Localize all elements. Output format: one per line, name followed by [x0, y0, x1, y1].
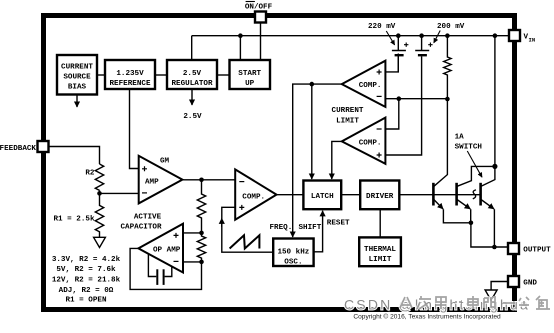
wire on/off pin to start up	[260, 23, 262, 61]
wire latch to driver	[341, 194, 360, 196]
svg-text:IN: IN	[529, 36, 536, 43]
svg-text:COMP.: COMP.	[359, 139, 382, 147]
block START UP	[230, 60, 271, 89]
arrow 2.5V output below regulator	[183, 89, 202, 121]
wire comp1 output to freq shift	[293, 84, 342, 237]
wire op amp feedback loop	[130, 248, 201, 289]
wire driver to thermal limit	[379, 209, 381, 237]
block THERMAL LIMIT	[359, 237, 401, 266]
break squiggle on base line	[473, 190, 476, 199]
svg-text:R1 = 2.5k: R1 = 2.5k	[53, 215, 94, 223]
comparator current limit lower	[342, 118, 386, 164]
svg-text:ACTIVE: ACTIVE	[134, 213, 162, 221]
table R2 values	[52, 256, 121, 305]
transistor Q3	[481, 166, 495, 247]
watermark CJK pseudo-glyph layer	[400, 296, 550, 309]
wire PWM output to latch	[277, 194, 304, 196]
resistor compensation lower	[197, 233, 205, 262]
svg-text:R2: R2	[85, 170, 95, 178]
resistor compensation upper	[197, 180, 205, 233]
svg-text:3.3V, R2 = 4.2k: 3.3V, R2 = 4.2k	[52, 256, 121, 264]
op-amp GM AMP	[139, 156, 183, 204]
block 150 kHz OSC	[273, 239, 313, 267]
wire osc to latch reset	[314, 211, 323, 252]
battery 220mV	[392, 36, 409, 72]
wire node to op amp - input	[183, 261, 202, 263]
svg-text:RESET: RESET	[327, 220, 350, 228]
arrow up on ramp feed	[221, 218, 223, 227]
svg-text:SWITCH: SWITCH	[455, 144, 483, 152]
svg-text:AMP: AMP	[145, 178, 159, 186]
capacitor active cap	[148, 254, 171, 285]
pin VIN	[509, 30, 520, 41]
svg-text:LIMIT: LIMIT	[369, 256, 392, 264]
comparator PWM	[235, 169, 276, 219]
svg-text:OSC.: OSC.	[284, 258, 302, 266]
IC boundary frame	[44, 16, 515, 310]
svg-text:FREQ.: FREQ.	[270, 224, 293, 232]
svg-text:12V, R2 = 21.8k: 12V, R2 = 21.8k	[52, 277, 121, 285]
wire start up left top	[239, 36, 241, 60]
pin ON/OFF	[255, 12, 266, 23]
block 2.5V REGULATOR	[167, 60, 217, 89]
battery 200mV	[385, 36, 432, 155]
svg-text:LIMIT: LIMIT	[336, 117, 359, 125]
ground open arrow below R1	[94, 237, 106, 247]
pin GND	[508, 276, 519, 287]
transistor Q2	[457, 166, 495, 222]
label 1A SWITCH with arrow	[455, 133, 483, 177]
op-amp OP AMP (active capacitor)	[138, 224, 183, 273]
block 1.235V REFERENCE	[105, 60, 155, 89]
wire bias to reference	[97, 74, 105, 76]
arrow below current source bias	[76, 95, 78, 108]
svg-text:BIAS: BIAS	[68, 83, 87, 91]
wire gnd pin to ground	[491, 282, 508, 291]
svg-text:OP AMP: OP AMP	[153, 247, 181, 255]
svg-text:SHIFT: SHIFT	[299, 224, 322, 232]
transistor Q1	[433, 99, 471, 223]
pin OUTPUT	[508, 243, 519, 254]
block LATCH	[303, 181, 341, 210]
svg-text:FEEDBACK: FEEDBACK	[0, 145, 36, 153]
svg-text:LATCH: LATCH	[311, 193, 334, 201]
svg-text:SOURCE: SOURCE	[63, 73, 91, 81]
wire PWM + input from oscillator ramp	[222, 207, 273, 252]
svg-text:GM: GM	[160, 158, 170, 166]
svg-text:DRIVER: DRIVER	[366, 193, 394, 201]
svg-text:GND: GND	[523, 280, 537, 288]
wire node to op amp + input	[183, 232, 202, 234]
svg-text:200 mV: 200 mV	[437, 23, 465, 31]
svg-text:ADJ, R2 = 0Ω: ADJ, R2 = 0Ω	[59, 287, 114, 295]
wire regulator top	[191, 36, 193, 60]
svg-text:COMP.: COMP.	[242, 193, 265, 201]
wire comp2 - input	[385, 99, 398, 129]
svg-text:5V, R2 = 7.6k: 5V, R2 = 7.6k	[56, 266, 116, 274]
svg-text:OUTPUT: OUTPUT	[523, 247, 551, 255]
svg-text:THERMAL: THERMAL	[364, 246, 396, 254]
svg-text:150 kHz: 150 kHz	[277, 248, 309, 256]
wire feedback pin to R2	[49, 147, 100, 165]
sawtooth ramp symbol	[230, 235, 260, 248]
svg-text:1A: 1A	[455, 133, 465, 141]
resistor R1	[53, 193, 103, 237]
svg-text:ON/OFF: ON/OFF	[245, 4, 273, 12]
wire GM output to PWM comparator	[182, 179, 235, 181]
svg-text:R1 = OPEN: R1 = OPEN	[65, 296, 106, 304]
wire comp1 - sense line	[385, 98, 447, 100]
svg-text:2.5V: 2.5V	[183, 113, 202, 121]
svg-text:2.5V: 2.5V	[183, 70, 202, 78]
wire switch collector feed	[494, 36, 496, 167]
base line driver to switch	[399, 194, 480, 196]
resistor R2	[85, 164, 103, 190]
svg-text:220 mV: 220 mV	[368, 23, 396, 31]
wire comp1 + input to battery	[385, 54, 398, 72]
svg-text:CAPACITOR: CAPACITOR	[120, 224, 161, 232]
wire comp1 to latch set	[311, 84, 313, 179]
svg-text:CURRENT: CURRENT	[61, 63, 93, 71]
block CURRENT SOURCE BIAS	[57, 55, 97, 95]
svg-text:REFERENCE: REFERENCE	[109, 80, 150, 88]
node GM output junction	[199, 178, 204, 183]
svg-text:START: START	[238, 70, 261, 78]
ground open arrow	[485, 290, 497, 300]
wire reference to gm amp + input	[130, 89, 139, 169]
wire R2 to node, node to GM - input	[100, 190, 139, 193]
svg-text:CURRENT: CURRENT	[332, 107, 364, 115]
wire comp2 output to latch	[332, 141, 342, 179]
wire regulator to startup	[217, 74, 230, 76]
node VIN rail wire	[192, 35, 509, 37]
emitter rail to output	[471, 223, 508, 247]
resistor sense	[444, 36, 451, 99]
node feedback divider junction	[97, 191, 102, 196]
svg-text:REGULATOR: REGULATOR	[171, 80, 212, 88]
node comp1 output junction	[310, 82, 315, 87]
wire reference to regulator	[155, 74, 167, 76]
block DRIVER	[360, 181, 399, 210]
svg-text:UP: UP	[245, 80, 255, 88]
svg-text:Copyright © 2016, Texas Instru: Copyright © 2016, Texas Instruments Inco…	[353, 312, 501, 320]
node comp lower junction	[199, 260, 204, 265]
svg-text:1.235V: 1.235V	[116, 70, 144, 78]
svg-text:COMP.: COMP.	[359, 82, 382, 90]
node junction rail-startup	[238, 33, 243, 38]
comparator current limit upper	[342, 61, 386, 107]
node comp upper junction	[199, 231, 204, 236]
pin FEEDBACK	[38, 141, 49, 152]
